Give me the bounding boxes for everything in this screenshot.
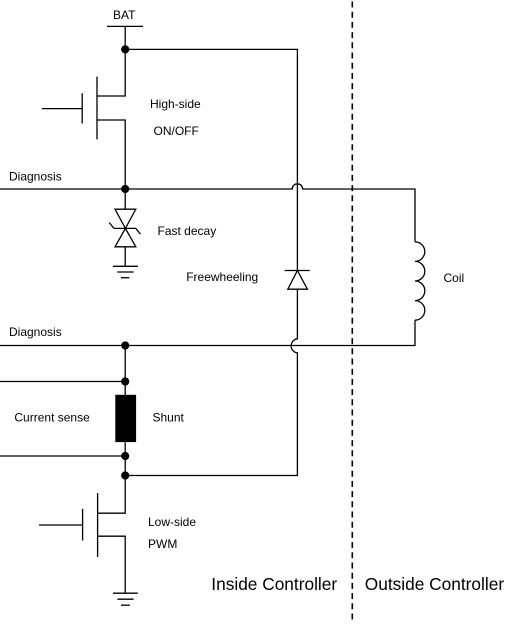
inductor L1 coil xyxy=(415,242,425,320)
svg-text:Inside Controller: Inside Controller xyxy=(211,574,337,594)
svg-text:BAT: BAT xyxy=(113,8,136,22)
ground (fast decay) xyxy=(113,266,138,277)
wire node C down to shunt top xyxy=(124,346,126,395)
transistor Q2 low-side MOSFET xyxy=(39,493,98,557)
battery terminal BAT xyxy=(107,25,143,27)
dashed controller boundary xyxy=(351,2,353,624)
svg-text:Current sense: Current sense xyxy=(14,410,90,424)
node D (shunt top dot) xyxy=(121,377,129,385)
node F (low-side drain dot) xyxy=(121,471,129,479)
wire Diagnosis upper rail with hop, to coil top xyxy=(0,184,415,242)
node B (upper diagnosis junction dot) xyxy=(121,185,129,193)
wire D1 to ground xyxy=(124,247,126,266)
svg-text:Diagnosis: Diagnosis xyxy=(9,169,62,183)
wire Q2 source to ground xyxy=(98,536,126,593)
svg-text:Diagnosis: Diagnosis xyxy=(9,325,62,339)
wire D2 anode down with hop, to node F xyxy=(125,289,297,475)
svg-text:Fast decay: Fast decay xyxy=(158,224,217,238)
wire Q1 source down to node B and D1 xyxy=(97,120,125,209)
node E (shunt bottom dot) xyxy=(121,452,129,460)
svg-text:PWM: PWM xyxy=(148,537,177,551)
svg-text:Shunt: Shunt xyxy=(153,410,185,424)
ground (low-side) xyxy=(113,593,138,605)
resistor R1 shunt xyxy=(115,395,136,442)
diode D1 bidirectional TVS fast decay xyxy=(109,209,140,247)
svg-text:Freewheeling: Freewheeling xyxy=(186,270,258,284)
wire shunt bottom through nodes E and F to Q2 drain xyxy=(98,442,126,513)
diode D2 freewheeling xyxy=(285,271,310,290)
wire current sense upper lead xyxy=(0,381,125,383)
svg-text:Outside Controller: Outside Controller xyxy=(365,574,505,594)
node C (lower diagnosis junction dot) xyxy=(121,341,129,349)
transistor Q1 high-side MOSFET xyxy=(42,77,97,140)
svg-text:Low-side: Low-side xyxy=(148,515,196,529)
svg-text:ON/OFF: ON/OFF xyxy=(154,124,199,138)
wire node A to freewheeling diode cathode xyxy=(125,49,297,270)
node A (BAT junction dot) xyxy=(121,45,129,53)
wire BAT down through node A to Q1 drain xyxy=(97,26,125,96)
svg-text:Coil: Coil xyxy=(444,271,465,285)
wire Diagnosis lower rail to coil bottom xyxy=(0,320,415,345)
wire current sense lower lead xyxy=(0,455,125,457)
svg-text:High-side: High-side xyxy=(150,97,201,111)
